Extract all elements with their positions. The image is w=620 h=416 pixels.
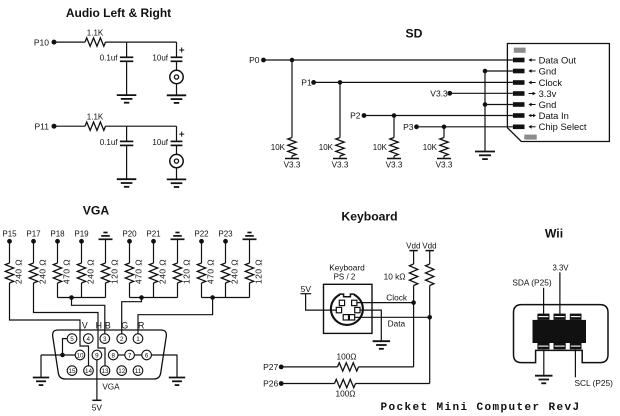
svg-text:240 Ω: 240 Ω <box>230 259 240 284</box>
svg-text:10K: 10K <box>373 143 388 152</box>
wire left ground riser <box>40 355 42 378</box>
5V underline tick <box>300 293 311 295</box>
V3.3 supply rail tick (R3) <box>285 158 299 160</box>
node P21 terminal dot <box>151 239 156 244</box>
resistor R19 10 kohm pullup <box>426 264 434 285</box>
svg-text:3: 3 <box>103 336 107 343</box>
svg-text:240 Ω: 240 Ω <box>14 259 24 284</box>
wire 5V to PS/2 pin 4 <box>306 294 337 310</box>
VGA pin 6 <box>142 350 152 360</box>
wire ground to 120 ohm resistor <box>177 239 179 263</box>
node P18 terminal dot <box>55 239 60 244</box>
value label 10 kOhm <box>384 271 406 281</box>
junction on P2 net <box>392 113 397 118</box>
wire jack J1 to ground <box>176 84 178 96</box>
ground (PS/2) <box>373 341 391 349</box>
svg-text:240 Ω: 240 Ω <box>38 259 48 284</box>
node P1 label <box>301 78 312 88</box>
section title: Audio Left & Right <box>66 6 171 20</box>
V3.3 supply rail tick (R4) <box>333 158 347 160</box>
svg-text:R: R <box>138 321 144 331</box>
svg-text:Clock: Clock <box>539 77 563 88</box>
node P19 label <box>74 229 89 238</box>
svg-text:P21: P21 <box>146 229 161 238</box>
svg-text:470 Ω: 470 Ω <box>62 259 72 284</box>
wire C4 to audio jack J2 <box>176 145 178 154</box>
wire P3 to SD connector <box>417 126 513 128</box>
node P26 label <box>263 379 278 389</box>
resistor R3 10K pullup <box>288 138 296 156</box>
wire gnd to SD pin 5 <box>485 104 513 106</box>
net label G <box>121 321 128 331</box>
svg-text:Pocket Mini Computer RevJ: Pocket Mini Computer RevJ <box>381 402 581 414</box>
svg-text:240 Ω: 240 Ω <box>158 259 168 284</box>
resistor R12 470 ohm <box>125 263 133 283</box>
junction on P1 net <box>338 80 343 85</box>
svg-text:100Ω: 100Ω <box>336 352 356 362</box>
svg-text:P17: P17 <box>26 229 41 238</box>
SD pin 1 direction arrow <box>528 58 535 62</box>
supply label Vdd (2) <box>422 242 436 251</box>
svg-text:120 Ω: 120 Ω <box>110 259 120 284</box>
svg-text:13: 13 <box>101 368 109 375</box>
VGA pin 10 <box>75 350 85 360</box>
value label 470 ohm (R15) rotated <box>206 259 216 284</box>
drawing title: Pocket Mini Computer RevJ <box>381 402 581 414</box>
svg-text:P18: P18 <box>50 229 65 238</box>
svg-text:V3.3: V3.3 <box>386 161 403 170</box>
section title: VGA <box>83 203 110 217</box>
wire down to capacitor C1 <box>126 42 128 57</box>
ground (Wii) <box>535 376 553 384</box>
value label 120 ohm (R17) rotated <box>254 259 264 284</box>
wire P19 down to resistor <box>81 241 83 263</box>
wire P11 to resistor R2 <box>54 125 85 127</box>
svg-text:P10: P10 <box>34 38 49 48</box>
value label 1.1K (R1) <box>87 29 104 38</box>
value label 0.1uf (C3) <box>100 138 119 147</box>
svg-text:P15: P15 <box>2 229 17 238</box>
node P20 terminal dot <box>127 239 132 244</box>
wire down to capacitor C2 <box>176 42 178 57</box>
svg-text:SCL (P25): SCL (P25) <box>575 378 614 388</box>
wire P1 to SD connector <box>314 81 513 83</box>
svg-text:P19: P19 <box>74 229 89 238</box>
connector label VGA <box>102 383 120 392</box>
supply label V3.3 (R3) <box>284 161 301 170</box>
svg-text:10uf: 10uf <box>152 138 168 147</box>
SD pin 6 label Data In <box>539 110 569 121</box>
net label B <box>105 321 111 331</box>
resistor R15 470 ohm <box>197 263 205 283</box>
polarity plus mark (C2) <box>179 48 184 53</box>
junction SD gnd pin 2 <box>483 69 488 74</box>
svg-text:G: G <box>121 321 128 331</box>
SD pin 7 label Chip Select <box>539 121 587 132</box>
V3.3 supply rail tick (R6) <box>437 158 451 160</box>
node P11 terminal dot <box>52 124 57 129</box>
svg-text:Chip Select: Chip Select <box>539 121 587 132</box>
wire resistor R4 to V3.3 rail tick <box>339 156 341 158</box>
SD pin 2 label Gnd <box>539 65 557 76</box>
resistor R5 10K pullup <box>390 138 398 156</box>
ground (under jack J1) <box>167 95 186 103</box>
SD pin 2 direction arrow <box>528 69 535 73</box>
net label SCL (P25) <box>575 378 614 388</box>
wire B net bus (R9,R10,R11 bottoms) <box>58 283 106 298</box>
wire Vdd to pullup resistor R18 <box>413 251 415 264</box>
wire P10 to resistor R1 <box>54 41 85 43</box>
SD pin 1 label Data Out <box>539 54 577 65</box>
SD ground net vertical wire <box>484 71 486 152</box>
capacitor C2 10uf polarized <box>171 57 183 61</box>
wire ground to 120 ohm resistor <box>249 239 251 263</box>
wire R1 output to 10uf branch <box>106 41 177 43</box>
svg-text:SD: SD <box>406 26 423 40</box>
Wii connector top contact 1 <box>537 314 549 320</box>
svg-text:8: 8 <box>111 352 115 359</box>
resistor R13 240 ohm <box>149 263 157 283</box>
supply label Vdd (1) <box>406 242 420 251</box>
resistor R4 10K pullup <box>336 138 344 156</box>
Wii connector bottom contact 2 <box>554 343 566 349</box>
svg-text:P2: P2 <box>350 111 361 121</box>
value label 10K (R3) <box>271 143 286 152</box>
svg-text:Data Out: Data Out <box>539 54 577 65</box>
V3.3 supply rail tick (R5) <box>387 158 401 160</box>
junction on P3 net <box>442 125 447 130</box>
svg-text:P11: P11 <box>35 122 50 132</box>
wire P18 down to resistor <box>57 241 59 263</box>
svg-text:120 Ω: 120 Ω <box>254 259 264 284</box>
wire P23 down to resistor <box>225 241 227 263</box>
Wii connector body (black) <box>533 320 587 343</box>
node P3 label <box>403 122 414 132</box>
junction pin5 hook on ground line <box>60 353 65 358</box>
resistor R11 120 ohm <box>101 263 109 283</box>
ground (top of 120 ohm column 8) <box>171 233 185 240</box>
svg-text:11: 11 <box>135 368 142 375</box>
wire P21 down to resistor <box>153 241 155 263</box>
resistor R14 120 ohm <box>173 263 181 283</box>
value label 470 ohm (R9) rotated <box>62 259 72 284</box>
wire P1 junction down to pullup resistor <box>339 82 341 137</box>
wire jack J2 to ground <box>176 168 178 180</box>
SD pin 3 direction arrow <box>528 81 535 85</box>
5V supply tick (VGA pin 9) <box>92 399 101 401</box>
svg-text:P0: P0 <box>249 55 260 65</box>
capacitor C1 0.1uf <box>120 57 133 61</box>
svg-text:0.1uf: 0.1uf <box>100 54 119 63</box>
node P11 label <box>35 122 50 132</box>
value label 240 ohm (R10) rotated <box>86 259 96 284</box>
wire PS/2 pin 3 to ground <box>360 310 381 341</box>
net label SDA (P25) <box>512 278 551 288</box>
value label 10K (R5) <box>373 143 388 152</box>
wire H net: R8 bottom to VGA pin 13 <box>34 283 106 366</box>
VGA pin 1 <box>133 334 143 344</box>
PS/2 pin 3 (Gnd) <box>355 307 360 312</box>
supply label 5V (VGA) <box>92 402 103 412</box>
supply label 5V (keyboard) <box>301 284 312 294</box>
svg-text:Gnd: Gnd <box>539 99 557 110</box>
wire P20 down to resistor <box>129 241 131 263</box>
SD pin 4 pad (3.3v) <box>513 91 525 96</box>
resistor R7 240 ohm <box>5 263 13 283</box>
svg-text:2: 2 <box>120 336 124 343</box>
junction clock net <box>411 300 416 305</box>
node P27 label <box>263 362 278 372</box>
svg-text:5V: 5V <box>301 284 312 294</box>
resistor R16 240 ohm <box>221 263 229 283</box>
wire down to capacitor C4 <box>176 126 178 141</box>
SD card connector J3 shell <box>507 44 609 142</box>
node P20 label <box>122 229 137 238</box>
svg-text:10: 10 <box>76 352 84 359</box>
Wii connector bottom contact 1 <box>537 343 549 349</box>
svg-text:6: 6 <box>145 352 149 359</box>
wire R net bus (R15,R16,R17 bottoms) <box>202 283 250 298</box>
supply label V3.3 (R5) <box>386 161 403 170</box>
svg-text:Gnd: Gnd <box>539 65 557 76</box>
supply label 3.3V (Wii) <box>552 264 569 273</box>
wire VGA pin 9 to 5V <box>96 360 98 400</box>
VGA pin 13 <box>100 366 110 376</box>
ground (under C1) <box>117 95 137 103</box>
svg-text:470 Ω: 470 Ω <box>206 259 216 284</box>
svg-text:1: 1 <box>136 336 140 343</box>
wire R20 to clock net <box>359 366 414 368</box>
section title: SD <box>406 26 423 40</box>
SD pin 4 label 3.3v <box>539 88 557 99</box>
Wii nunchuck connector J6 shell <box>514 305 609 363</box>
node P23 label <box>218 229 233 238</box>
VGA pin 7 <box>125 350 135 360</box>
node P21 label <box>146 229 161 238</box>
svg-text:4: 4 <box>87 336 91 343</box>
resistor R10 240 ohm <box>77 263 85 283</box>
audio jack J1 (circle symbol) <box>170 70 183 83</box>
resistor R20 100 ohm <box>338 363 359 371</box>
SD pin 5 pad (Gnd) <box>513 102 525 107</box>
VGA pin 9 <box>92 350 102 360</box>
supply label V3.3 (R4) <box>332 161 349 170</box>
ground (under C3) <box>117 179 137 187</box>
VGA pin 12 <box>117 366 127 376</box>
net label H <box>96 321 102 331</box>
svg-text:P23: P23 <box>218 229 233 238</box>
wire Vdd to pullup resistor R19 <box>429 251 431 264</box>
node V3.3 terminal dot <box>447 91 452 96</box>
ground (VGA left) <box>33 378 49 386</box>
svg-text:Vdd: Vdd <box>422 242 436 251</box>
node P17 terminal dot <box>31 239 36 244</box>
SD pin 3 pad (Clock) <box>513 80 525 85</box>
node P22 terminal dot <box>199 239 204 244</box>
resistor R9 470 ohm <box>53 263 61 283</box>
resistor R1 1.1K <box>85 38 106 46</box>
SD pin 4 direction arrow <box>529 92 536 96</box>
wire P15 down to resistor <box>9 241 11 263</box>
VGA DB15 connector J4 shell <box>53 330 167 379</box>
svg-text:10uf: 10uf <box>152 54 168 63</box>
capacitor C3 0.1uf <box>120 141 133 145</box>
node P26 terminal dot <box>279 381 284 386</box>
resistor R21 100 ohm <box>335 379 356 387</box>
junction on P0 net <box>290 58 295 63</box>
svg-text:3.3V: 3.3V <box>552 264 569 273</box>
wire C1 to ground <box>126 61 128 95</box>
wire VGA pin 8 to pin 7 <box>118 354 125 356</box>
svg-text:SDA (P25): SDA (P25) <box>512 278 551 288</box>
section title: Keyboard <box>341 209 397 223</box>
junction R net <box>210 295 215 300</box>
resistor R6 10K pullup <box>440 138 448 156</box>
SD pin 2 pad (Gnd) <box>513 69 525 74</box>
wire VGA pin 7 to pin 6 <box>134 354 141 356</box>
value label 240 ohm (R8) rotated <box>38 259 48 284</box>
svg-text:12: 12 <box>118 368 126 375</box>
value label 10K (R6) <box>423 143 438 152</box>
svg-text:V3.3: V3.3 <box>284 161 301 170</box>
wire left ground line to VGA pin 10 <box>41 354 75 356</box>
VGA pin 11 <box>133 366 143 376</box>
VGA pin 4 <box>84 334 94 344</box>
node P3 terminal dot <box>414 124 419 129</box>
Wii connector top contact 3 <box>570 314 582 320</box>
wire P2 junction down to pullup resistor <box>393 116 395 138</box>
net label Data <box>388 319 406 329</box>
net label R <box>138 321 144 331</box>
VGA pin 8 <box>108 350 118 360</box>
wire P0 to SD connector <box>264 59 513 61</box>
svg-text:5: 5 <box>70 336 74 343</box>
wire G net to VGA pin 2 <box>122 298 142 334</box>
value label 240 ohm (R7) rotated <box>14 259 24 284</box>
value label 10K (R4) <box>319 143 334 152</box>
wire P0 junction down to pullup resistor <box>291 60 293 138</box>
ground (top of 120 ohm column 11) <box>243 233 257 240</box>
SD pin 7 direction arrow <box>528 125 535 129</box>
audio jack J2 (circle symbol) <box>170 154 183 167</box>
value label 10uf (C4) <box>152 138 168 147</box>
svg-text:P3: P3 <box>403 122 414 132</box>
svg-text:Vdd: Vdd <box>406 242 420 251</box>
PS/2 pin 5 (Clock) <box>352 300 357 305</box>
SD pin 1 pad (Data Out) <box>513 58 525 63</box>
svg-text:Audio Left & Right: Audio Left & Right <box>66 6 171 20</box>
value label 0.1uf (C1) <box>100 54 119 63</box>
PS/2 pin 6 <box>339 300 344 305</box>
wire P3 junction down to pullup resistor <box>443 127 445 138</box>
PS/2 mini-DIN connector J5 box <box>324 284 373 333</box>
wire clock net: R18 bottom down to P27 row <box>413 286 415 367</box>
value label 120 ohm (R14) rotated <box>182 259 192 284</box>
junction B net <box>69 295 74 300</box>
node P15 label <box>2 229 17 238</box>
node P0 terminal dot <box>261 58 266 63</box>
Wii connector top contact 2 <box>554 314 566 320</box>
svg-text:120 Ω: 120 Ω <box>182 259 192 284</box>
wire ground to 120 ohm resistor <box>105 239 107 263</box>
wire C2 to audio jack J1 <box>176 61 178 70</box>
svg-text:P26: P26 <box>263 379 278 389</box>
ground (VGA right) <box>169 378 185 386</box>
value label 100 Ohm (R21) <box>335 388 355 398</box>
value label 240 ohm (R13) rotated <box>158 259 168 284</box>
wire clock: PS/2 pin 5 to pullup <box>357 302 414 304</box>
svg-text:10K: 10K <box>319 143 334 152</box>
svg-text:Keyboard: Keyboard <box>341 209 397 223</box>
value label 1.1K (R2) <box>87 113 104 122</box>
node V3.3 label (SD 3.3v supply) <box>430 88 448 98</box>
PS/2 keyway notch <box>339 290 354 296</box>
svg-text:0.1uf: 0.1uf <box>100 138 119 147</box>
node P27 terminal dot <box>279 365 284 370</box>
wire resistor R6 to V3.3 rail tick <box>443 156 445 158</box>
wire P27 to resistor R20 <box>281 366 337 368</box>
connector label Keyboard PS / 2 <box>329 262 365 281</box>
VGA pin 3 <box>100 334 110 344</box>
wire gnd to SD pin 2 <box>485 70 513 72</box>
net label V <box>82 321 88 331</box>
svg-text:14: 14 <box>85 368 93 375</box>
junction data net <box>427 315 432 320</box>
ground (top of 120 ohm column 5) <box>99 233 113 240</box>
svg-text:5V: 5V <box>92 402 103 412</box>
wire R21 to data net <box>356 383 430 385</box>
svg-text:Wii: Wii <box>545 226 563 240</box>
node P22 label <box>194 229 209 238</box>
PS/2 pin 1 (Data) <box>343 315 348 320</box>
svg-text:1.1K: 1.1K <box>87 29 104 38</box>
node P2 terminal dot <box>362 113 367 118</box>
svg-text:V3.3: V3.3 <box>436 161 453 170</box>
Wii connector bottom contact 3 <box>570 343 582 349</box>
polarity plus mark (C4) <box>179 132 184 137</box>
wire VGA pin 5 hook to row2 ground line <box>63 339 68 355</box>
wire resistor R5 to V3.3 rail tick <box>393 156 395 158</box>
resistor R17 120 ohm <box>245 263 253 283</box>
SD pin 3 label Clock <box>539 77 563 88</box>
capacitor C4 10uf polarized <box>171 141 183 145</box>
svg-text:Keyboard: Keyboard <box>329 262 365 272</box>
ground (under jack J2) <box>167 179 186 187</box>
resistor R2 1.1K <box>85 122 106 130</box>
svg-text:P1: P1 <box>301 78 312 88</box>
supply label V3.3 (R6) <box>436 161 453 170</box>
wire 3.3V to Wii connector <box>559 272 561 314</box>
node P15 terminal dot <box>7 239 12 244</box>
wire P26 to resistor R21 <box>281 383 334 385</box>
svg-text:3.3v: 3.3v <box>539 88 557 99</box>
SD connector bottom polarity bar <box>524 135 536 140</box>
node P1 terminal dot <box>311 80 316 85</box>
svg-text:10K: 10K <box>423 143 438 152</box>
svg-text:Data: Data <box>388 319 406 329</box>
svg-text:1.1K: 1.1K <box>87 113 104 122</box>
VGA pin 5 <box>67 334 77 344</box>
wire VGA pin 6 to right ground <box>151 355 177 378</box>
wire P17 down to resistor <box>33 241 35 263</box>
svg-text:P27: P27 <box>263 362 278 372</box>
Vdd supply rail tick (2) <box>426 250 434 252</box>
SD pin 5 label Gnd <box>539 99 557 110</box>
svg-text:B: B <box>105 321 111 331</box>
wire G net bus (R12,R13,R14 bottoms) <box>130 283 178 298</box>
SD connector top polarity bar <box>514 48 526 53</box>
svg-text:PS / 2: PS / 2 <box>334 273 356 282</box>
